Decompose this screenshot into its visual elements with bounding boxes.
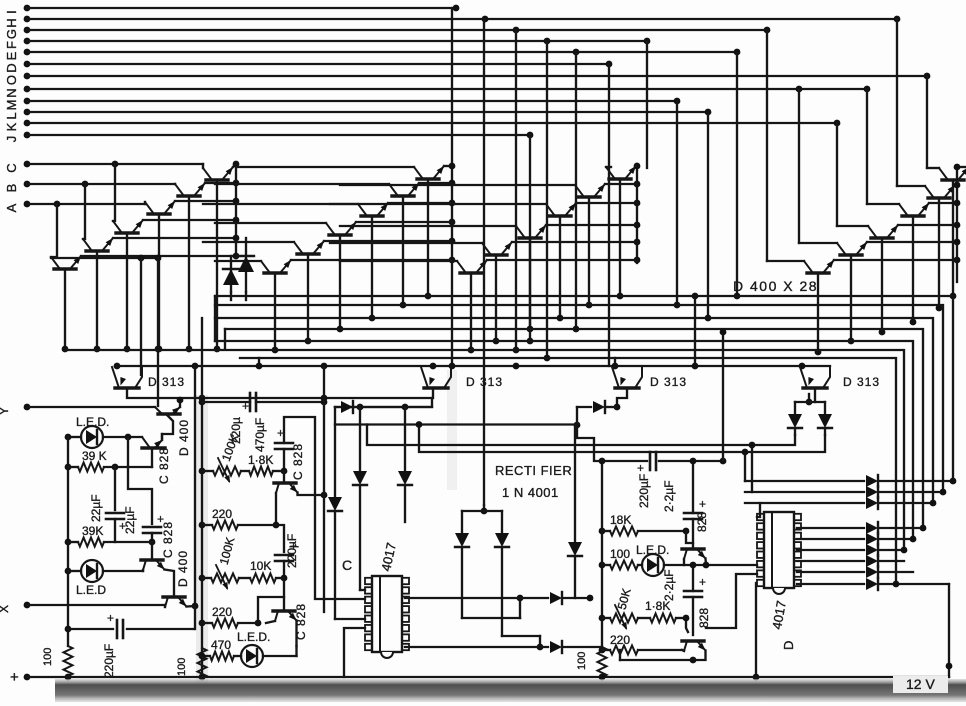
diode DL — [794, 402, 796, 413]
transistor Q13 (D400 array) — [609, 177, 631, 180]
wire Q9 emitter down — [371, 216, 373, 318]
wire drop — [575, 52, 577, 329]
diode D6 — [398, 471, 412, 485]
wire Q8 base feed — [215, 183, 389, 185]
svg-text:12 V: 12 V — [906, 676, 935, 692]
wire Q9 base feed — [203, 203, 358, 205]
wire drop — [707, 112, 709, 318]
svg-text:N: N — [4, 88, 19, 97]
svg-text:22µF: 22µF — [89, 494, 103, 522]
wire T8 collector join — [682, 650, 684, 651]
svg-text:A: A — [4, 203, 19, 212]
wire bridge top — [462, 510, 502, 512]
wire Q6 emitter down — [64, 269, 66, 349]
transistor Q16 (D400 array) — [519, 236, 541, 239]
wire D8 bottom row — [462, 617, 520, 619]
svg-text:K: K — [4, 122, 19, 131]
wire Q27 base down — [617, 388, 627, 407]
svg-text:828: 828 — [695, 512, 709, 532]
wire T1 collector up — [179, 400, 181, 407]
wire Q2 emitter down — [188, 196, 190, 349]
transistor C828 T2 — [142, 446, 165, 449]
led LED1 — [81, 426, 103, 448]
svg-text:D 313: D 313 — [843, 375, 880, 389]
wire Q23 emitter down — [850, 255, 852, 341]
wire x405 chain — [404, 407, 406, 470]
wire drop — [798, 89, 800, 243]
wire T6 emitter down — [295, 621, 297, 647]
wire Q6 collector stub — [81, 255, 236, 257]
svg-text:828: 828 — [697, 608, 711, 628]
svg-text:X: X — [0, 605, 11, 613]
wire drop — [608, 64, 610, 366]
svg-text:O: O — [4, 75, 19, 85]
wire drop — [676, 101, 678, 305]
wire Q11 base feed — [203, 241, 294, 243]
wire collector rail group3 — [636, 164, 638, 263]
svg-text:1 N 4001: 1 N 4001 — [502, 485, 559, 500]
wire Q17 collector to rail — [512, 241, 637, 243]
wire bottom rail — [27, 676, 949, 678]
wire x195 down to row — [194, 606, 196, 629]
transistor D400 T1 — [158, 412, 180, 415]
wire Q15 emitter down — [559, 216, 561, 318]
wire D9 bottom row — [502, 635, 540, 637]
wire A drop to Q6 base — [51, 204, 57, 257]
wire Q8 collector to rail — [419, 182, 452, 184]
wire T1 emitter down — [162, 414, 173, 438]
wire bottom right vert — [948, 584, 950, 677]
wire diode bottoms — [230, 292, 232, 300]
transistor Q17 (D400 array) — [485, 253, 507, 256]
wire row K — [27, 122, 837, 124]
svg-text:100: 100 — [176, 658, 188, 676]
wire T6 emitter join — [295, 646, 297, 656]
wire Q5 emitter down — [96, 251, 98, 349]
wire block D top row — [602, 460, 647, 462]
wire Q11 collector to rail — [324, 240, 452, 242]
wire Q16 collector to rail — [546, 224, 637, 226]
capacitor 22uF 1 — [106, 512, 124, 515]
wire Q13 base feed — [606, 166, 611, 168]
wire 220-1 to cap — [276, 525, 284, 552]
svg-text:220µF: 220µF — [637, 474, 651, 508]
transistor D400 T4 — [163, 595, 185, 598]
wire Q21 emitter down — [912, 216, 914, 322]
wire Q3 emitter down — [158, 214, 160, 349]
svg-text:100: 100 — [576, 652, 588, 670]
wire drop — [646, 41, 648, 168]
transistor C828 T6 — [273, 609, 295, 612]
svg-text:+: + — [10, 669, 19, 686]
wire Q14 base feed — [340, 184, 575, 186]
wire 2.2uF bottom leads — [692, 565, 694, 591]
wire Q14 emitter down — [588, 197, 590, 305]
diode out bottom — [797, 560, 864, 562]
wire Q9 collector to rail — [388, 202, 452, 204]
svg-text:B: B — [4, 184, 19, 193]
wire row O — [27, 75, 927, 77]
wire bus line — [215, 318, 933, 503]
wire row A — [27, 203, 145, 205]
wire T8 emitter — [620, 651, 706, 661]
diode out top — [745, 502, 864, 504]
wire bus line — [215, 305, 943, 492]
wire Q17 base feed — [330, 242, 482, 244]
wire row E — [27, 51, 737, 53]
wire dio top feeds — [744, 452, 746, 481]
transistor Q10 (D400 array) — [329, 233, 351, 236]
wire X row — [27, 604, 165, 606]
ic 4017 #1 — [372, 576, 402, 652]
transistor Q4 (D400 array) — [116, 231, 138, 234]
capacitor 220uF D — [649, 452, 652, 470]
wire Q26 base down — [432, 388, 434, 398]
wire Q1 collector to rail — [233, 164, 236, 167]
wire T3 emitter elbow — [165, 570, 175, 598]
wire T5 collector down — [275, 493, 277, 525]
svg-text:C 828: C 828 — [161, 521, 175, 558]
scan smudge artifacts — [196, 395, 208, 685]
wire Q22 base feed — [837, 225, 868, 227]
wire T3 collector to led2 row — [142, 570, 144, 571]
diode bridge D8 — [461, 511, 463, 532]
capacitor 220u block2 — [249, 393, 252, 411]
wire elbow to 220-2 — [258, 597, 284, 623]
wire bus line — [225, 329, 923, 528]
svg-text:2·2µF: 2·2µF — [662, 569, 676, 601]
diode pair top — [808, 394, 810, 402]
wire bus left tie — [214, 296, 216, 341]
svg-text:220µF: 220µF — [102, 644, 116, 678]
wire Q23 base feed — [799, 242, 837, 244]
wire row F — [27, 40, 647, 42]
capacitor 220uF 2 — [275, 554, 293, 557]
wire Q22 collector tie — [898, 224, 957, 226]
transistor Q23 (D400 array) — [840, 253, 862, 256]
transistor Q24 (D400 array) — [807, 271, 829, 274]
transistor C828 T5 — [274, 481, 296, 484]
wire block2 left rail — [201, 318, 203, 677]
wire Q1 emitter down — [216, 180, 218, 349]
diode array D1 — [230, 256, 232, 292]
diode D11 row — [405, 646, 548, 648]
wire led4 to IC2 — [664, 564, 757, 566]
wire D313 collector rail — [115, 365, 830, 367]
svg-text:+: + — [107, 611, 114, 625]
wire drop — [515, 30, 517, 350]
diode D13 — [577, 406, 591, 408]
svg-text:C 828: C 828 — [291, 443, 305, 480]
wire Q14 collector to rail — [605, 183, 637, 185]
wire Q18 base feed — [340, 260, 457, 262]
transistor Q27 D313 — [615, 386, 639, 389]
wire Q2 collector stub — [205, 182, 236, 184]
wire T5 emitter right — [298, 493, 325, 496]
svg-text:+: + — [699, 497, 706, 511]
transistor Q2 (D400 array) — [178, 194, 200, 197]
wire row D — [27, 63, 609, 65]
wire Q25 base down — [127, 388, 432, 398]
wire drop — [896, 19, 898, 186]
transistor Q1 (D400 array) — [206, 178, 228, 181]
wire Q4 emitter down — [126, 233, 128, 349]
svg-text:2·2µF: 2·2µF — [662, 480, 676, 512]
wire Q15 collector to rail — [576, 202, 637, 204]
wire drop — [836, 123, 838, 226]
wire cap2 down — [151, 533, 153, 560]
led LED3 — [241, 645, 263, 667]
wire led2 row — [68, 570, 81, 572]
wire Q20 emitter down — [938, 198, 940, 308]
wire left rail bottom-left block — [67, 437, 69, 646]
wire bus to Y-row vertical — [157, 258, 159, 406]
wire 2.2uF top leads — [692, 461, 694, 513]
svg-text:M: M — [4, 100, 19, 111]
diode out top — [745, 480, 864, 482]
svg-text:18K: 18K — [610, 513, 631, 527]
transistor Q8 (D400 array) — [392, 194, 414, 197]
wire Q21 base feed — [867, 203, 899, 205]
svg-text:L: L — [4, 112, 19, 119]
wire bus line — [215, 341, 913, 539]
wire Q12 emitter down — [274, 273, 276, 350]
wire row J — [27, 134, 530, 136]
transistor Q18 (D400 array) — [460, 271, 482, 274]
wire Q20 collector tie — [955, 184, 957, 186]
svg-text:D: D — [4, 63, 19, 72]
wire Q13 emitter down — [619, 179, 621, 296]
diode D10 row — [405, 597, 548, 599]
diode DR — [824, 402, 826, 413]
svg-text:I: I — [4, 10, 19, 14]
wire Q19 emitter down — [952, 180, 954, 296]
svg-text:D 313: D 313 — [148, 375, 185, 389]
transistor Q22 (D400 array) — [871, 236, 893, 239]
wire Q20 base feed — [897, 185, 925, 187]
svg-text:D 313: D 313 — [650, 375, 687, 389]
svg-text:+: + — [637, 461, 644, 475]
wire group4 collector rail — [956, 168, 958, 282]
transistor Q15 (D400 array) — [549, 214, 571, 217]
svg-text:100: 100 — [42, 648, 54, 666]
wire drop — [766, 30, 768, 261]
wire Q5 collector stub — [113, 237, 236, 239]
wire Q12 base feed — [215, 260, 261, 262]
wire T4 emitter to rail x195 — [187, 605, 196, 608]
wire bus line — [240, 358, 896, 584]
wire row B — [27, 183, 175, 185]
wire C drop to Q4 base — [113, 164, 115, 221]
wire A row to Q3 base — [144, 202, 146, 204]
wire x723 from bus — [722, 332, 724, 461]
wire C row to Q1 base — [202, 164, 204, 168]
wire corner down to diode row — [335, 398, 432, 407]
svg-text:C: C — [4, 163, 19, 172]
wire Q3 collector stub — [175, 200, 236, 202]
wire 470uF down — [283, 449, 285, 471]
svg-text:220: 220 — [610, 633, 630, 647]
wire T6 collector to 220-2 — [266, 621, 275, 623]
diode out bottom — [797, 549, 864, 551]
wire T5 base — [283, 471, 285, 483]
wire T7 base — [686, 531, 693, 543]
wire block D bottom tie — [619, 650, 621, 660]
wire Q24 base feed — [767, 260, 804, 262]
transistor Q11 (D400 array) — [297, 252, 319, 255]
svg-text:10K: 10K — [250, 559, 271, 573]
wire Q10 emitter down — [339, 235, 341, 329]
wire Q28 base down — [814, 388, 816, 402]
wire Q23 collector tie — [867, 241, 957, 243]
wire T7 legs down — [683, 559, 685, 565]
wire right verts to diode rows — [950, 478, 957, 485]
wire drop — [736, 52, 738, 296]
wire led1 row — [68, 436, 81, 438]
wire Y row — [27, 406, 155, 408]
wire Q8 emitter down — [402, 196, 404, 305]
wire bus tie x695 — [694, 296, 696, 366]
svg-text:D 400 X 28: D 400 X 28 — [733, 278, 818, 294]
wire D5 to IC — [360, 589, 365, 591]
transistor Q5 (D400 array) — [86, 249, 108, 252]
wire block D left rail — [601, 461, 603, 650]
diode out bottom — [797, 538, 864, 540]
transistor Q6 (D400 array) — [54, 267, 76, 270]
wire Q17 emitter down — [495, 255, 497, 341]
wire T4 collector to X row — [164, 605, 166, 607]
svg-text:E: E — [4, 51, 19, 60]
transistor 828 T8 — [682, 639, 704, 642]
svg-text:L.E.D: L.E.D — [76, 583, 106, 597]
svg-text:J: J — [4, 136, 19, 143]
wire rect diode row yB=407 — [335, 406, 432, 408]
svg-text:39 K: 39 K — [82, 449, 107, 463]
svg-text:D: D — [781, 641, 796, 650]
transistor Q9 (D400 array) — [361, 214, 383, 217]
wire row L — [27, 111, 708, 113]
wire cap 220uF2 down — [283, 561, 285, 578]
wire right rail x324 — [323, 366, 325, 612]
transistor Q28 D313 — [803, 386, 827, 389]
wire bus tie x225 — [224, 329, 226, 349]
wire row N — [27, 88, 867, 90]
transistor 828 T7 — [682, 547, 704, 550]
wire block2 top row — [202, 401, 250, 403]
svg-text:L.E.D.: L.E.D. — [237, 630, 270, 644]
wire Q22 emitter down — [881, 238, 883, 332]
svg-text:470µF: 470µF — [253, 418, 267, 452]
wire Q24 collector tie — [834, 259, 957, 261]
transistor C828 T3 — [141, 558, 163, 561]
diode D5 — [353, 471, 367, 485]
wire Q7 collector to rail — [444, 165, 452, 167]
wire node line y=258 — [51, 257, 158, 259]
ic 4017 #2 — [764, 512, 794, 588]
wire T2 emitter down-left — [151, 448, 153, 467]
wire row G — [27, 29, 767, 31]
wire bus line — [66, 350, 904, 550]
wire row I — [27, 7, 456, 9]
svg-text:Y: Y — [0, 407, 11, 415]
wire drop — [926, 76, 928, 168]
wire x577 elbow to block D — [577, 407, 602, 461]
transistor Q3 (D400 array) — [148, 212, 170, 215]
transistor Q20 (D400 array) — [928, 196, 950, 199]
wire drop — [546, 41, 548, 358]
wire LED row to cap2 — [128, 437, 152, 524]
transistor Q12 (D400 array) — [264, 271, 286, 274]
wire drop — [529, 135, 531, 341]
wire collector rail group2 (row I drop) — [451, 8, 453, 366]
diode rect D3 — [341, 401, 353, 413]
wire group1 collector rail — [235, 164, 237, 258]
wire D313-1 collector vertical — [140, 258, 142, 375]
wire row H — [27, 18, 897, 20]
wire bus line — [215, 296, 953, 481]
transistor Q7 (D400 array) — [417, 177, 439, 180]
svg-text:470: 470 — [211, 638, 231, 652]
svg-text:220µF: 220µF — [285, 534, 299, 568]
wire y452 to D313-4 diode — [419, 425, 825, 453]
led LED4 — [642, 554, 664, 576]
wire Q24 emitter down — [817, 273, 819, 352]
wire x195 vertical — [194, 366, 196, 606]
diode out top — [745, 491, 864, 493]
wire Q7 base feed — [236, 166, 414, 168]
wire led3 right — [263, 655, 297, 657]
diode D12 chain — [574, 425, 576, 541]
wire Q16 emitter down — [529, 238, 531, 329]
diode out bottom — [797, 571, 864, 573]
wire bus tie x615 — [614, 358, 616, 366]
svg-text:C: C — [342, 557, 352, 573]
wire Q15 base feed — [330, 203, 546, 205]
wire IC1 bottom-left to rail — [344, 628, 365, 677]
wire 4017-2 pin to T8 — [706, 574, 757, 628]
svg-text:+: + — [242, 399, 249, 413]
wire B row to Q2 base — [174, 183, 176, 185]
capacitor 22uF 2 — [143, 526, 161, 529]
wire row C — [27, 163, 203, 165]
wire Q12 collector to rail — [291, 259, 452, 261]
wire Q19 base feed — [927, 167, 939, 169]
scan band artifact — [55, 679, 966, 702]
diode bridge D9 — [501, 511, 503, 532]
wire Q11 emitter down — [307, 254, 309, 341]
svg-text:RECTI FIER: RECTI FIER — [495, 463, 572, 478]
svg-text:220: 220 — [212, 605, 232, 619]
svg-text:C 828: C 828 — [157, 447, 171, 484]
wire Q18 emitter down — [470, 273, 472, 350]
transistor Q25 D313 — [115, 386, 139, 389]
wire rail to bottom — [67, 676, 69, 677]
wire row M — [27, 100, 677, 102]
svg-text:220: 220 — [212, 507, 232, 521]
wire Q7 emitter down — [427, 179, 429, 296]
wire Q21 collector tie — [929, 202, 957, 204]
wire Q10 collector to rail — [356, 221, 452, 223]
svg-text:H: H — [4, 18, 19, 27]
wire cap1 lead — [114, 467, 116, 510]
transistor Q19 (D400 array) — [942, 178, 964, 181]
wire x335 chain — [334, 407, 336, 496]
diode out bottom — [797, 527, 864, 529]
wire B drop to Q5 base — [83, 184, 85, 239]
wire D7 to IC — [335, 618, 365, 620]
svg-text:39K: 39K — [82, 524, 103, 538]
led LED2 — [81, 560, 103, 582]
